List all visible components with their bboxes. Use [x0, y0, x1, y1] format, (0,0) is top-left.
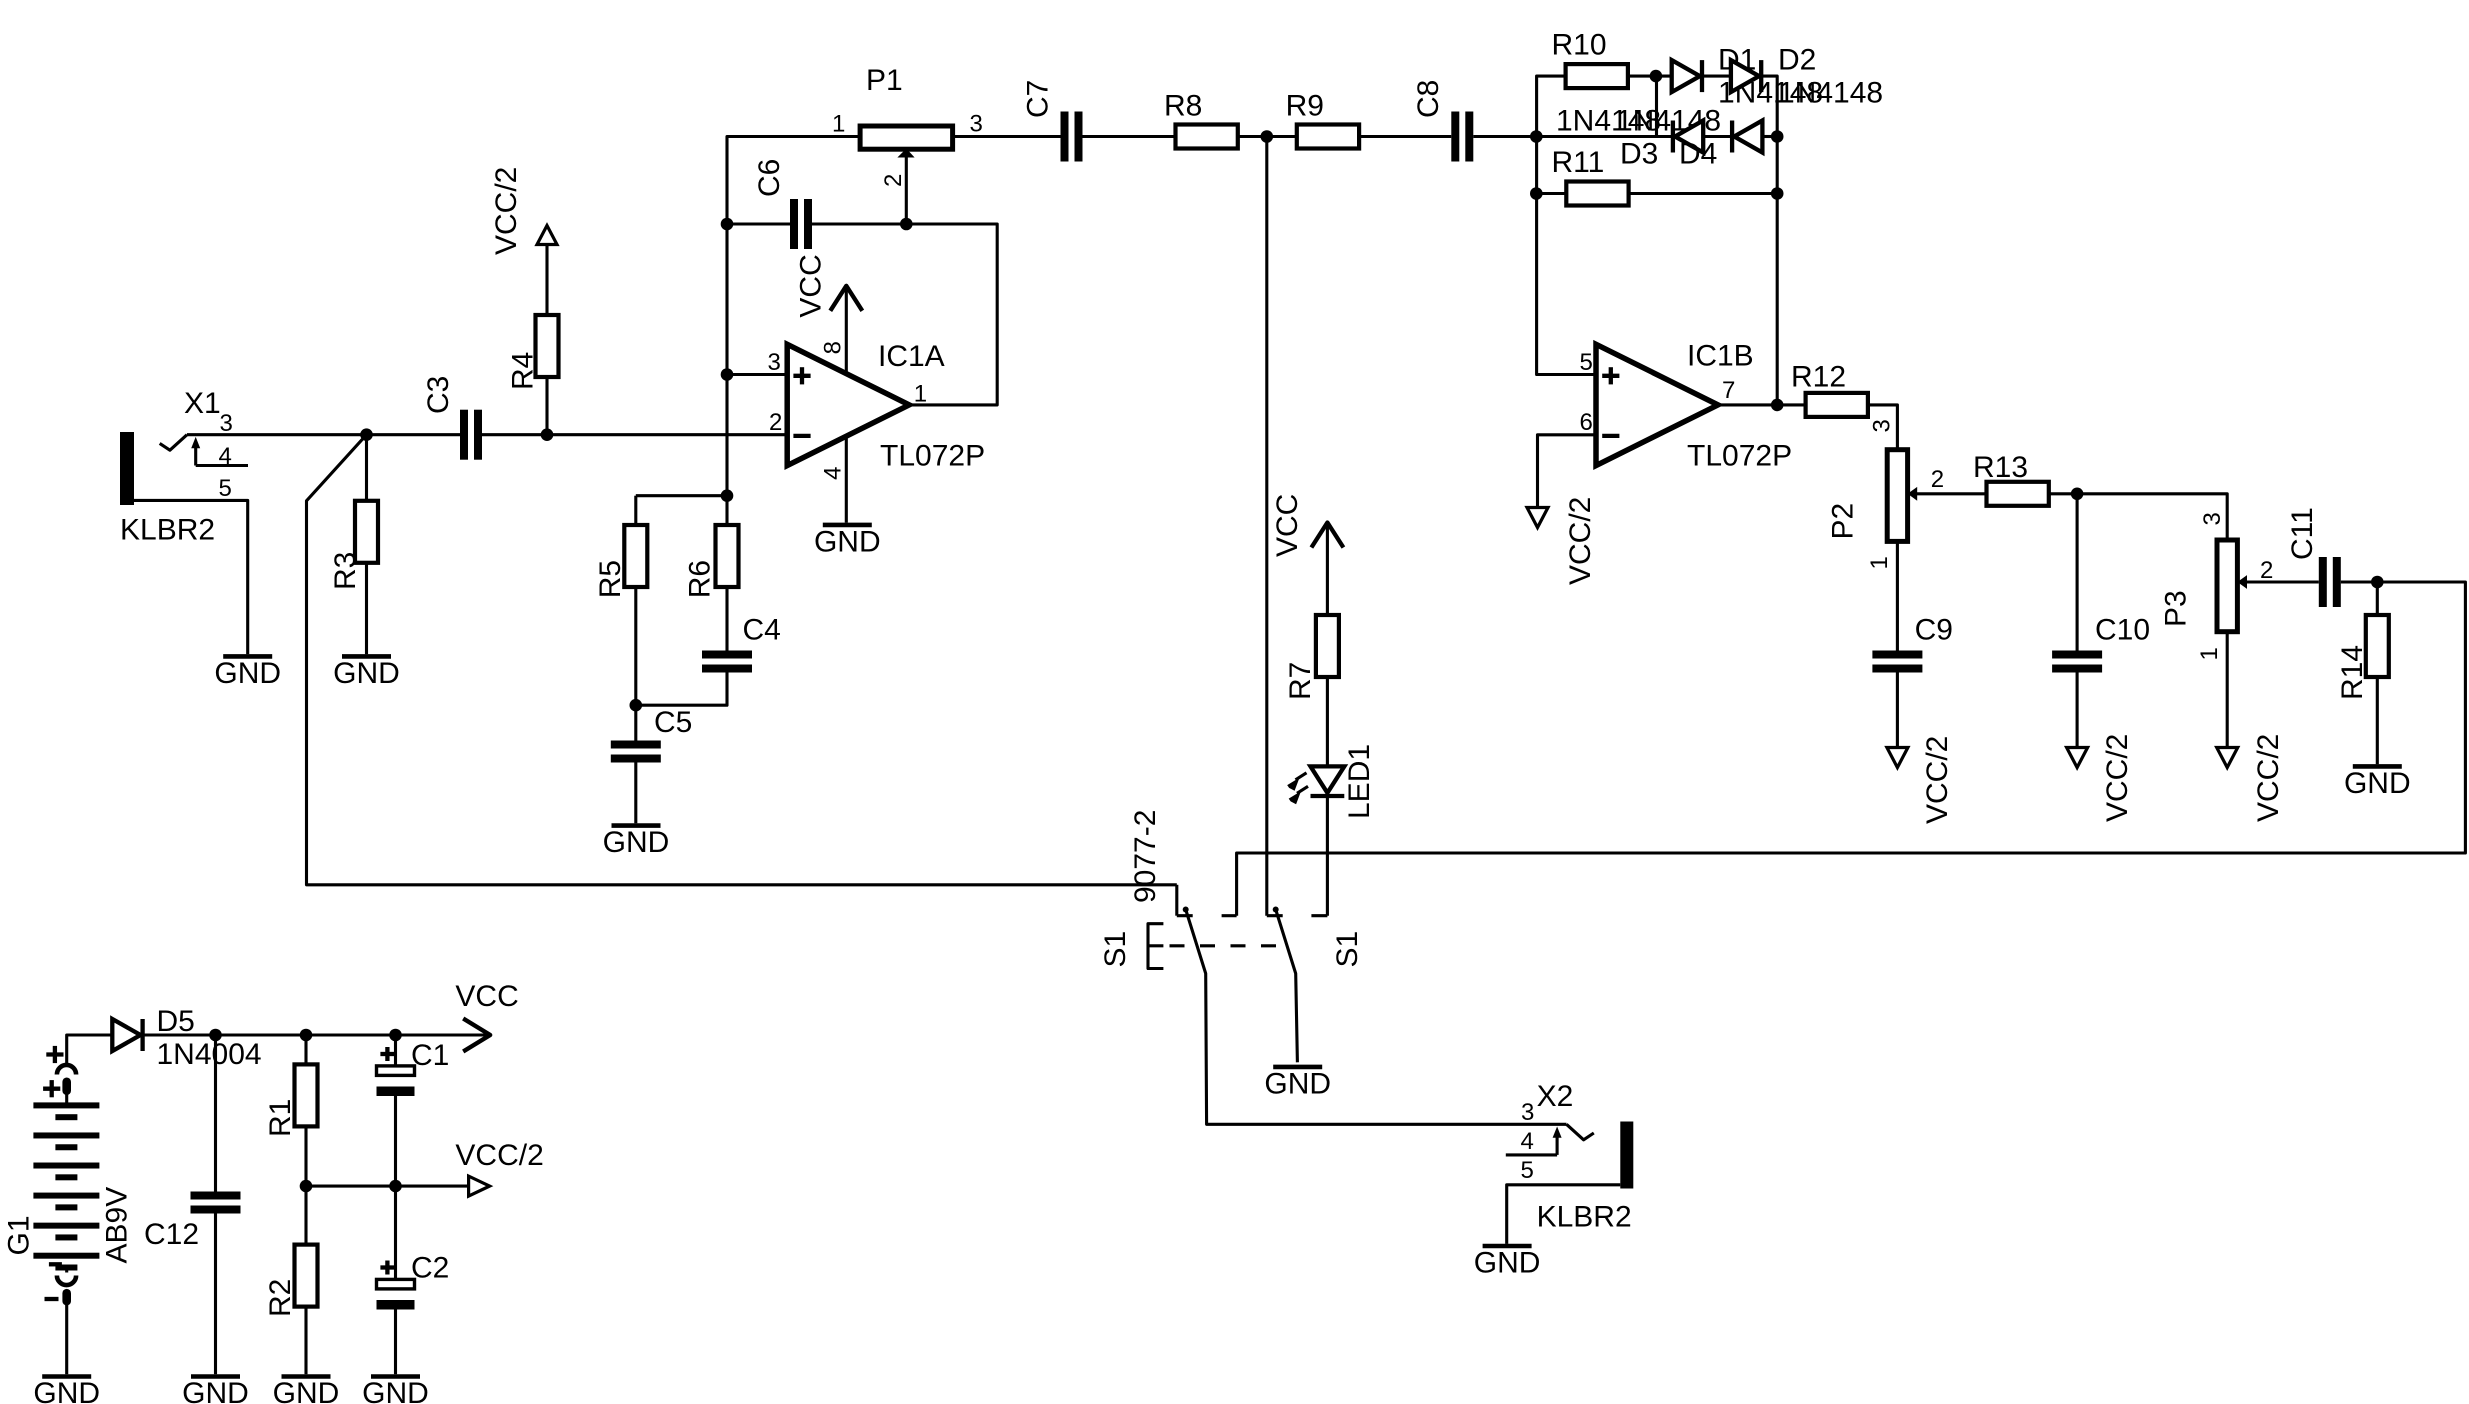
battery G1 plus sign outer — [46, 1052, 63, 1056]
svg-text:C12: C12 — [144, 1218, 199, 1251]
wire D2 to right rail — [1761, 76, 1777, 405]
svg-text:C11: C11 — [2286, 507, 2319, 560]
potentiometer P3 body — [2217, 540, 2237, 632]
svg-text:4: 4 — [1521, 1128, 1534, 1155]
svg-text:GND: GND — [33, 1377, 100, 1404]
node at R1 top — [300, 1029, 313, 1042]
wire C4 bottom to C5 node — [636, 673, 727, 706]
node at R1/R2 divider — [300, 1180, 313, 1193]
connector X1 jack sleeve bar — [120, 432, 134, 505]
diode D1 — [1672, 60, 1700, 92]
wire rail from P1 pin1 down to R5/R6 — [727, 137, 861, 496]
svg-text:R14: R14 — [2336, 645, 2369, 700]
svg-text:5: 5 — [1521, 1157, 1534, 1184]
svg-text:R6: R6 — [684, 560, 717, 598]
wire R13 node to P3 pin 3 — [2077, 494, 2227, 540]
ground symbol below R2 — [282, 1374, 331, 1379]
resistor R7 — [1326, 523, 1329, 616]
diode D5 — [112, 1019, 140, 1051]
connector X2 pin 4 switch arrow — [1556, 1137, 1559, 1155]
supply symbol VCC above R7 — [1311, 523, 1343, 548]
resistor R1 — [304, 1035, 307, 1064]
op-amp IC1B triangle — [1596, 344, 1718, 465]
svg-text:P1: P1 — [866, 64, 903, 97]
resistor R8 — [1176, 125, 1238, 149]
wire VCC/2 rail — [306, 1185, 469, 1188]
connector X2 pin 5 wire to ground — [1507, 1185, 1621, 1244]
resistor R13 — [1987, 482, 2049, 506]
wire P3 pin 1 down — [2226, 632, 2229, 766]
node at D2/D4 right rail top — [1771, 130, 1784, 143]
battery G1 plus pill to plate stub — [65, 1095, 68, 1104]
svg-text:P3: P3 — [2160, 590, 2193, 627]
ground symbol for X2 — [1483, 1244, 1532, 1249]
node at C6 right / P1 wiper — [900, 218, 913, 231]
svg-text:C7: C7 — [1022, 80, 1055, 118]
resistor R5 — [634, 496, 637, 525]
LED LED1 triangle — [1311, 766, 1345, 793]
capacitor C2 electrolytic — [394, 1186, 397, 1279]
ground symbol below C2 — [371, 1374, 420, 1379]
svg-text:1: 1 — [2196, 647, 2223, 660]
svg-text:3: 3 — [768, 349, 781, 376]
wire VCC rail — [143, 1033, 491, 1036]
potentiometer P1 wiper arrow — [897, 149, 914, 158]
capacitor C6 feedback — [790, 199, 798, 249]
svg-text:X1: X1 — [184, 387, 221, 420]
svg-text:C9: C9 — [1915, 614, 1953, 647]
svg-text:S1: S1 — [1099, 931, 1132, 968]
wire rail from C8 node down to IC1B pin 5 — [1537, 76, 1596, 374]
capacitor C7 — [1061, 112, 1069, 162]
svg-text:D2: D2 — [1778, 44, 1816, 77]
svg-text:VCC/2: VCC/2 — [1921, 736, 1954, 824]
ground symbol below R3 — [342, 654, 391, 659]
svg-text:C3: C3 — [422, 376, 455, 414]
svg-text:R7: R7 — [1284, 662, 1317, 700]
supply symbol VCC/2 arrow — [469, 1176, 490, 1196]
capacitor C1 electrolytic — [394, 1035, 397, 1066]
ground symbol below C5 — [612, 823, 661, 828]
potentiometer P3 wiper arrow — [2237, 575, 2247, 589]
battery G1 minus sign outer — [45, 1297, 59, 1301]
battery G1 plus sign inner — [43, 1087, 60, 1091]
connector X2 pin 4 stub — [1506, 1153, 1557, 1156]
svg-text:GND: GND — [214, 657, 281, 690]
connector X1 pin 4 stub — [196, 464, 248, 467]
svg-text:VCC/2: VCC/2 — [2101, 734, 2134, 822]
capacitor C10 — [2076, 494, 2079, 651]
svg-text:S1: S1 — [1331, 931, 1364, 968]
svg-text:X2: X2 — [1537, 1080, 1574, 1113]
svg-text:GND: GND — [182, 1377, 249, 1404]
node at X1/R3/S1 junction — [360, 428, 373, 441]
svg-text:C1: C1 — [411, 1039, 449, 1072]
resistor R2 — [304, 1186, 307, 1245]
node at IC1B output — [1771, 399, 1784, 412]
capacitor C3 — [460, 410, 468, 460]
svg-text:R8: R8 — [1164, 90, 1202, 123]
supply symbol VCC/2 below C9 — [1887, 748, 1908, 768]
wire C8 node to D3 — [1536, 135, 1673, 138]
svg-text:VCC/2: VCC/2 — [1564, 497, 1597, 585]
svg-text:TL072P: TL072P — [1687, 440, 1792, 473]
node at C3/R4 junction — [541, 428, 554, 441]
battery G1 plates — [33, 1102, 99, 1108]
switch S1 pole2 left contact tick — [1267, 914, 1283, 917]
svg-text:KLBR2: KLBR2 — [1537, 1201, 1632, 1234]
svg-text:4: 4 — [820, 467, 847, 480]
svg-text:R11: R11 — [1552, 146, 1605, 179]
node at IC1A pin 3 — [721, 368, 734, 381]
svg-text:2: 2 — [769, 409, 782, 436]
svg-text:R10: R10 — [1552, 29, 1607, 62]
svg-text:5: 5 — [1580, 349, 1593, 376]
svg-text:C8: C8 — [1412, 80, 1445, 118]
supply symbol VCC/2 above R4 — [537, 226, 557, 245]
switch S1 pole2 moving contact to ground — [1276, 910, 1298, 1063]
node at C8 output — [1530, 130, 1543, 143]
svg-text:GND: GND — [362, 1377, 429, 1404]
wire from R8/R9 node down to S1 pole 2 — [1265, 137, 1268, 916]
ground symbol below C12 — [191, 1374, 240, 1379]
svg-text:IC1A: IC1A — [878, 340, 945, 373]
resistor R3 — [365, 435, 368, 501]
svg-text:C4: C4 — [743, 614, 781, 647]
capacitor C12 — [214, 1035, 217, 1192]
diode D4 — [1730, 121, 1734, 153]
svg-text:C10: C10 — [2095, 614, 2150, 647]
connector X1 tip contact — [160, 435, 187, 451]
switch S1 actuator bracket — [1148, 924, 1163, 969]
ground symbol at IC1A pin 4 — [823, 523, 872, 528]
svg-text:GND: GND — [333, 657, 400, 690]
wire IC1A pin 4 to ground — [845, 437, 848, 523]
wire IC1A feedback loop pin1 to C6/P1 — [906, 224, 997, 405]
svg-text:C2: C2 — [411, 1252, 449, 1285]
supply symbol VCC/2 below P3 — [2217, 748, 2238, 768]
svg-text:9077-2: 9077-2 — [1129, 810, 1162, 903]
svg-text:TL072P: TL072P — [880, 440, 985, 473]
switch S1 pole1 pivot dot — [1183, 907, 1189, 913]
capacitor C5 — [634, 705, 637, 740]
svg-text:VCC/2: VCC/2 — [490, 167, 523, 255]
node at R11 left — [1530, 187, 1543, 200]
potentiometer P2 wiper arrow — [1908, 487, 1918, 501]
svg-text:3: 3 — [970, 111, 983, 138]
minus mark of IC1A — [793, 434, 810, 438]
svg-text:VCC/2: VCC/2 — [2252, 734, 2285, 822]
switch S1 pole2 right contact tick — [1311, 914, 1327, 917]
svg-text:R12: R12 — [1791, 361, 1846, 394]
wire R5/R6 top link — [636, 494, 727, 497]
node at C11/R14 junction — [2371, 576, 2384, 589]
diode D2 — [1731, 60, 1759, 92]
svg-text:R1: R1 — [264, 1099, 297, 1137]
wire battery plus to D5 — [67, 1035, 113, 1065]
node at C1/C2 junction — [389, 1180, 402, 1193]
svg-text:1: 1 — [832, 111, 845, 138]
wire from R14 node to bypass switch S1 pole 1 — [1237, 582, 2466, 916]
svg-text:1: 1 — [1866, 556, 1893, 569]
switch S1 pole1 right contact tick — [1222, 914, 1237, 917]
wire IC1A pin 8 to VCC — [845, 286, 848, 373]
svg-text:6: 6 — [1580, 409, 1593, 436]
svg-text:1N4148: 1N4148 — [1778, 77, 1883, 110]
wire X1 pin3 to C3 — [187, 433, 460, 436]
battery G1 last plate to minus clip stub — [65, 1268, 68, 1273]
ground symbol below S1 — [1273, 1065, 1322, 1070]
svg-text:5: 5 — [219, 475, 232, 502]
connector X1 pin 5 wire to ground — [134, 500, 248, 654]
switch S1 pole1 moving contact and wire to X2 — [1186, 910, 1567, 1125]
battery G1 minus sign inner — [49, 1262, 62, 1266]
node at R13/C10 junction — [2071, 488, 2084, 501]
svg-text:R5: R5 — [594, 560, 627, 598]
capacitor C9 — [1896, 541, 1899, 650]
svg-text:D4: D4 — [1679, 138, 1717, 171]
wire P1 pin3 to C7 — [953, 135, 1061, 138]
svg-text:GND: GND — [273, 1377, 340, 1404]
svg-text:VCC: VCC — [1271, 494, 1304, 557]
svg-text:C5: C5 — [654, 706, 692, 739]
svg-text:R2: R2 — [264, 1279, 297, 1317]
resistor R6 — [725, 496, 728, 525]
svg-text:R4: R4 — [507, 352, 540, 390]
svg-text:3: 3 — [220, 410, 233, 437]
svg-text:3: 3 — [1869, 419, 1896, 432]
node at R5/C4/C5 junction — [630, 699, 643, 712]
svg-text:R3: R3 — [329, 552, 362, 590]
node at C6 left — [721, 218, 734, 231]
node at R8/R9 junction — [1261, 130, 1274, 143]
svg-text:3: 3 — [2199, 512, 2226, 525]
svg-text:P2: P2 — [1827, 503, 1860, 540]
potentiometer P2 body — [1887, 450, 1907, 542]
svg-text:2: 2 — [880, 174, 907, 187]
node at C1 top — [389, 1029, 402, 1042]
svg-text:D3: D3 — [1620, 138, 1658, 171]
connector X1 pin 4 switch arrow — [194, 446, 197, 466]
connector X2 sleeve bar — [1620, 1122, 1633, 1189]
svg-text:LED1: LED1 — [1343, 744, 1376, 819]
wire IC1A pin 3 — [727, 373, 787, 376]
svg-text:2: 2 — [2260, 557, 2273, 584]
node at R10/D1/D3 junction — [1650, 70, 1663, 83]
plus mark of IC1A — [793, 374, 810, 378]
svg-text:KLBR2: KLBR2 — [120, 514, 215, 547]
node at C12 top — [209, 1029, 222, 1042]
svg-text:R13: R13 — [1973, 451, 2028, 484]
switch S1 actuator dashed link — [1170, 944, 1286, 947]
svg-text:D5: D5 — [157, 1005, 195, 1038]
svg-text:4: 4 — [219, 443, 232, 470]
connector X2 tip contact — [1567, 1124, 1594, 1140]
svg-text:R9: R9 — [1286, 90, 1324, 123]
resistor R12 — [1777, 403, 1806, 406]
LED LED1 cathode bar — [1311, 794, 1345, 798]
potentiometer P1 body — [860, 126, 953, 149]
LED LED1 emission arrows — [1296, 773, 1307, 780]
svg-text:GND: GND — [603, 826, 670, 859]
supply symbol VCC arrow — [463, 1019, 490, 1052]
resistor R11 — [1536, 192, 1566, 195]
svg-text:AB9V: AB9V — [101, 1187, 134, 1264]
resistor R14 — [2376, 582, 2379, 615]
wire diagonal from input node down to bypass switch S1 — [307, 435, 1177, 885]
capacitor C11 — [2319, 557, 2327, 607]
svg-text:GND: GND — [1264, 1067, 1331, 1100]
battery G1 minus terminal clip — [57, 1276, 76, 1286]
capacitor C8 — [1451, 112, 1459, 162]
node at IC1A R5/R6 junction — [721, 489, 734, 502]
wire from D1 node down to D3 row — [1655, 76, 1658, 136]
ground symbol below G1 — [42, 1374, 91, 1379]
plus mark of C2 — [380, 1265, 394, 1269]
wire C3 to op-amp pin 2 — [482, 433, 787, 436]
resistor R10 — [1566, 64, 1628, 88]
plus mark of C1 — [380, 1052, 394, 1056]
resistor R4 — [545, 377, 548, 435]
diode D3 — [1671, 121, 1675, 153]
resistor R9 — [1297, 125, 1359, 149]
svg-text:3: 3 — [1521, 1099, 1534, 1126]
ground symbol for X1 — [223, 654, 272, 659]
battery G1 positive terminal clip — [57, 1065, 76, 1075]
supply symbol VCC at IC1A pin 8 — [830, 286, 862, 311]
minus mark of IC1B — [1602, 434, 1619, 438]
svg-text:2: 2 — [1931, 466, 1944, 493]
wire LED1 to S1 pole2 right contact — [1326, 796, 1329, 916]
svg-text:IC1B: IC1B — [1687, 340, 1754, 373]
capacitor C4 — [702, 651, 752, 659]
op-amp IC1A triangle — [787, 344, 909, 465]
wire IC1B pin 6 — [1538, 435, 1597, 526]
svg-text:VCC/2: VCC/2 — [455, 1139, 543, 1172]
switch S1 pole2 pivot dot — [1273, 907, 1279, 913]
node at R11 right — [1771, 187, 1784, 200]
supply symbol VCC/2 below C10 — [2067, 748, 2088, 768]
svg-text:1N4004: 1N4004 — [157, 1038, 262, 1071]
svg-text:VCC: VCC — [455, 980, 518, 1013]
svg-text:GND: GND — [814, 525, 881, 558]
svg-text:GND: GND — [1474, 1247, 1541, 1280]
svg-text:G1: G1 — [3, 1215, 36, 1255]
plus mark of IC1B — [1602, 374, 1619, 378]
svg-text:GND: GND — [2344, 767, 2411, 800]
wire IC1B pin 7 output — [1718, 403, 1777, 406]
svg-text:C6: C6 — [753, 159, 786, 197]
svg-text:8: 8 — [820, 341, 847, 354]
switch S1 pole1 left contact — [1175, 885, 1178, 916]
ground symbol below R14 — [2353, 764, 2402, 769]
svg-text:VCC: VCC — [795, 254, 828, 317]
svg-text:7: 7 — [1722, 377, 1735, 404]
wire battery minus to ground — [65, 1305, 68, 1374]
supply symbol VCC/2 below IC1B pin 6 — [1527, 508, 1548, 528]
